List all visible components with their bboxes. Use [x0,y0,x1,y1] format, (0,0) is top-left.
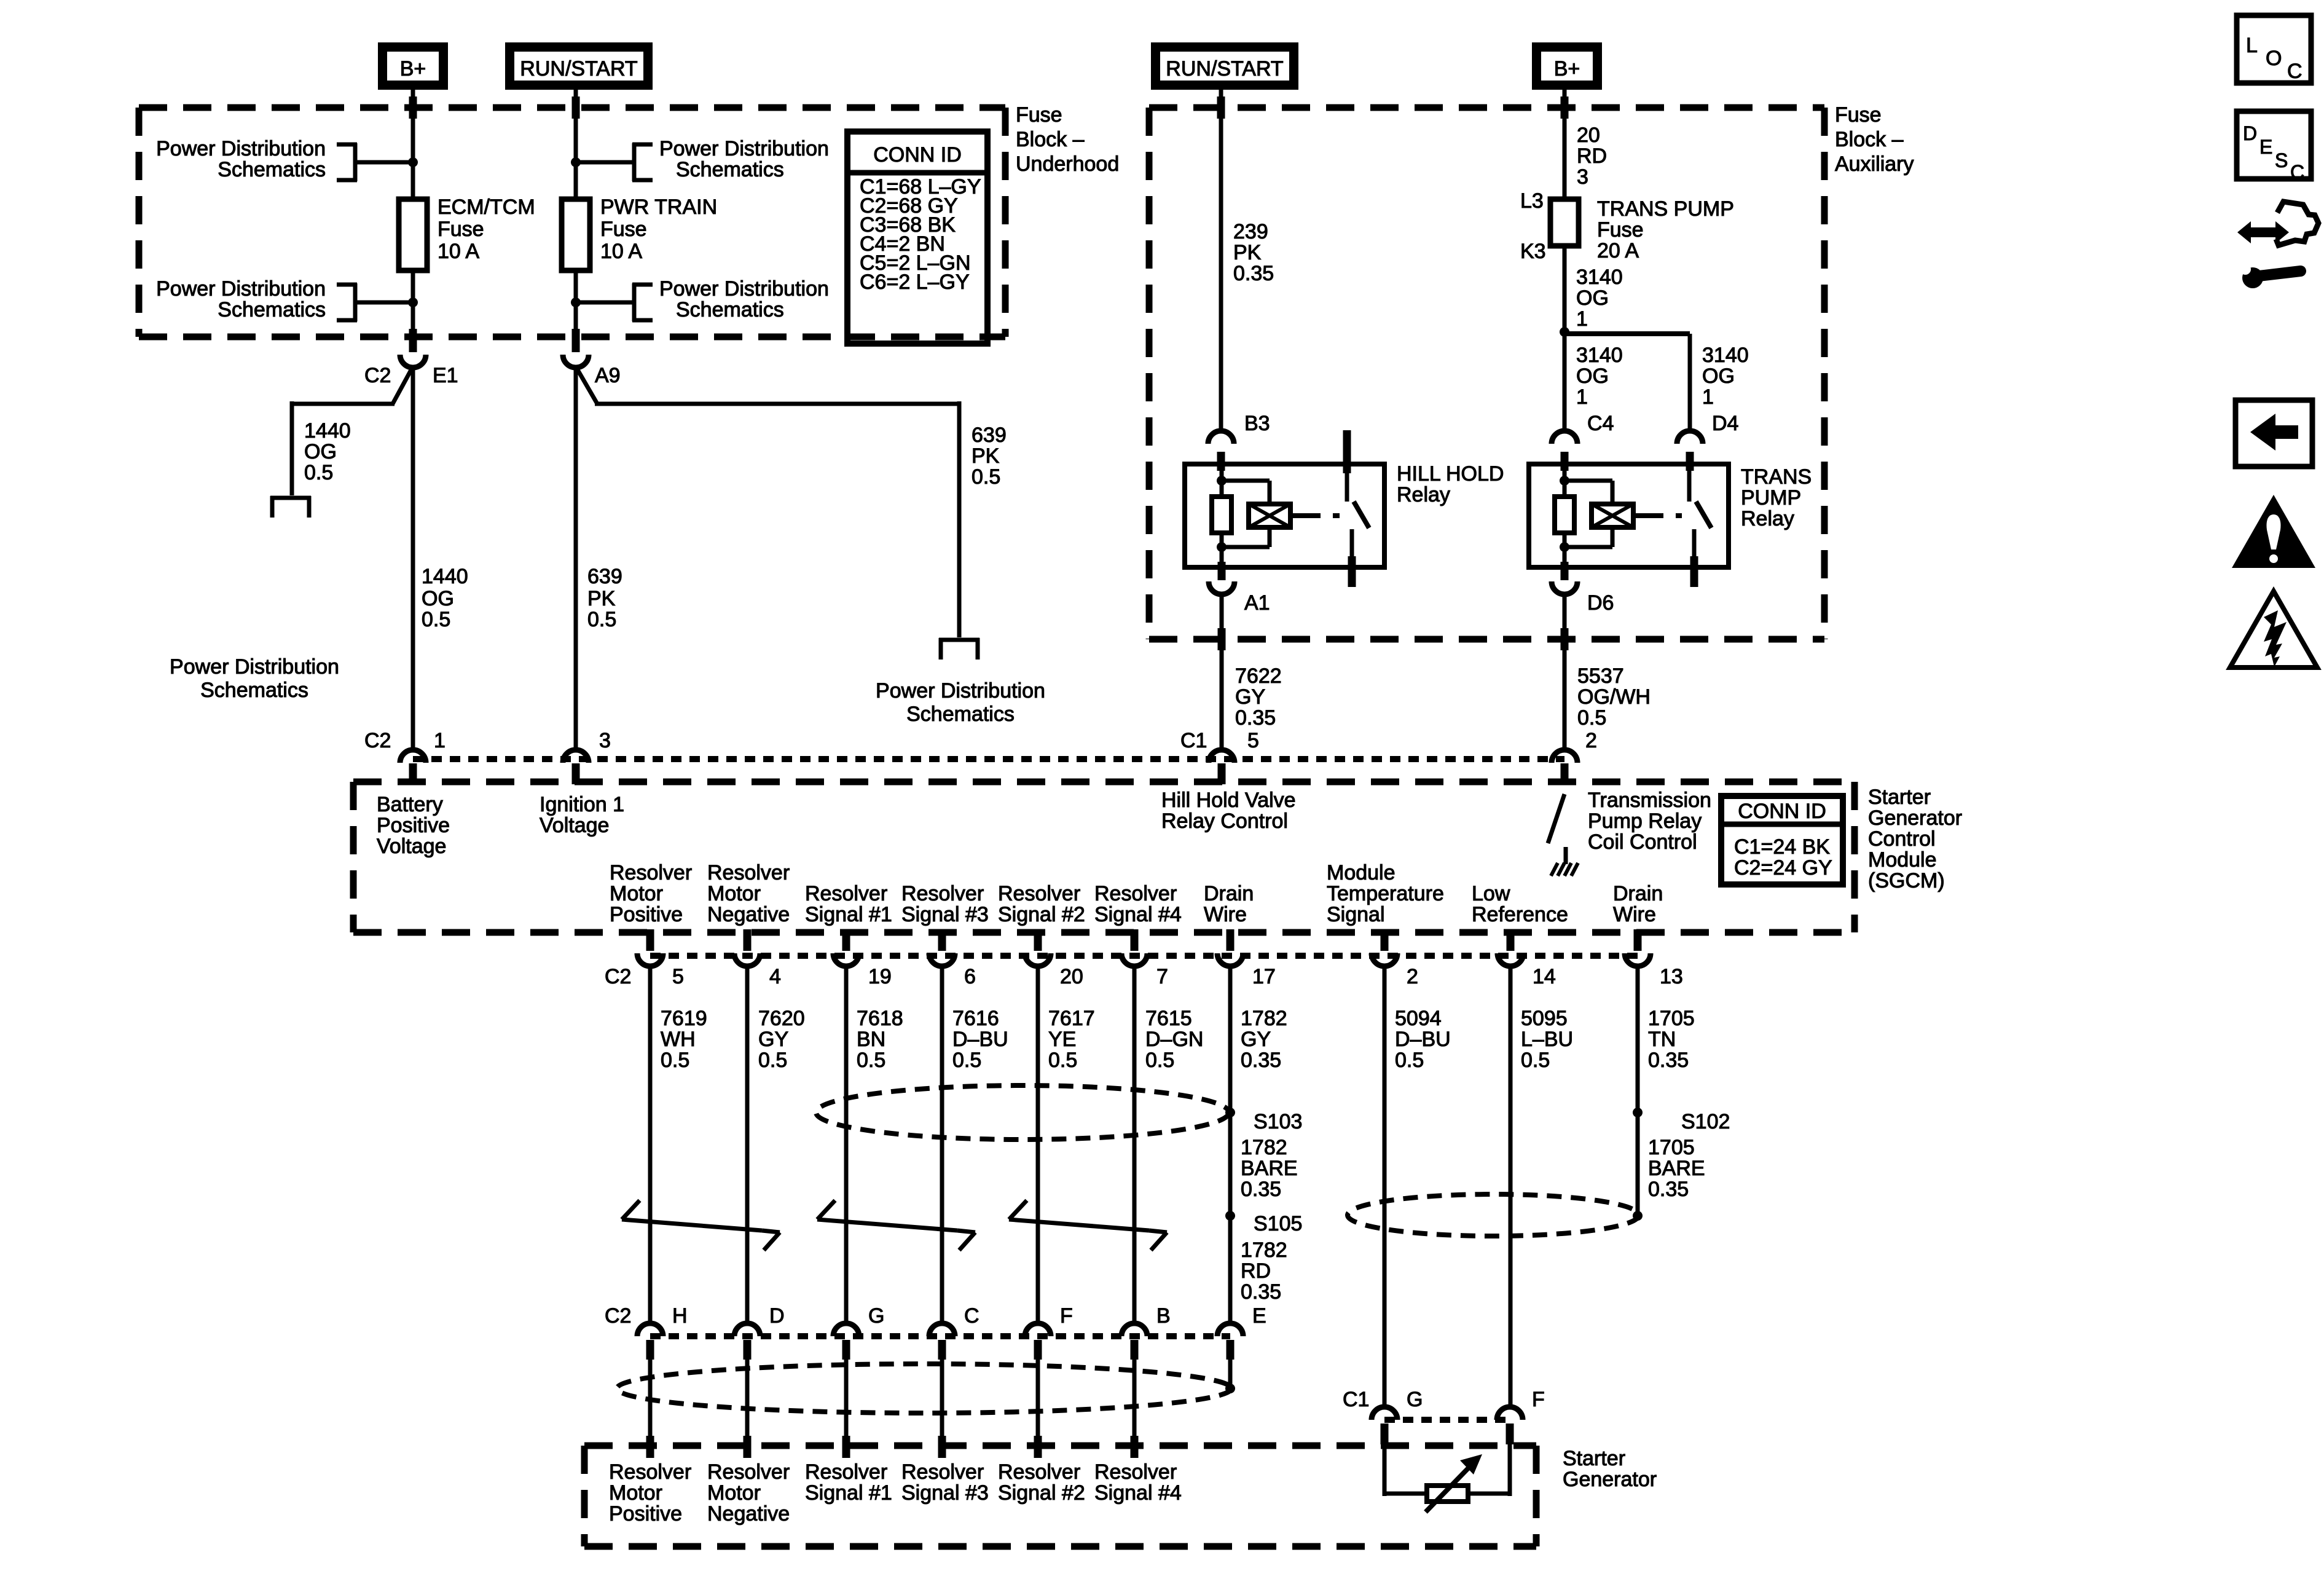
svg-text:C6=2 L–GY: C6=2 L–GY [860,270,970,294]
svg-text:Power Distribution: Power Distribution [876,679,1045,703]
svg-text:H: H [672,1304,688,1328]
svg-text:Module: Module [1868,848,1937,872]
svg-text:Control: Control [1868,827,1936,851]
svg-text:239: 239 [1233,220,1268,243]
svg-text:3140: 3140 [1702,344,1749,367]
svg-text:Resolver: Resolver [1094,882,1177,905]
svg-text:1440: 1440 [304,419,351,443]
svg-text:C: C [2290,161,2304,183]
svg-text:O: O [2266,47,2282,70]
svg-text:PUMP: PUMP [1741,486,1801,510]
svg-text:GY: GY [758,1028,788,1051]
svg-text:0.5: 0.5 [422,608,450,631]
svg-text:C2: C2 [605,1304,631,1328]
svg-text:Schematics: Schematics [218,158,326,181]
svg-text:C: C [964,1304,979,1328]
svg-text:7619: 7619 [661,1007,707,1030]
svg-text:5094: 5094 [1395,1007,1442,1030]
svg-text:OG: OG [422,587,454,610]
svg-text:BARE: BARE [1648,1157,1705,1180]
svg-text:Relay Control: Relay Control [1161,809,1288,833]
svg-text:4: 4 [769,965,781,988]
svg-text:0.5: 0.5 [1145,1049,1174,1072]
svg-text:Signal #4: Signal #4 [1094,903,1182,926]
svg-text:Power Distribution: Power Distribution [156,277,326,301]
svg-text:Power Distribution: Power Distribution [156,137,326,160]
svg-text:Signal #1: Signal #1 [805,903,892,926]
svg-text:5: 5 [672,965,684,988]
svg-text:G: G [1407,1388,1423,1411]
svg-text:Block –: Block – [1835,128,1904,151]
svg-text:17: 17 [1252,965,1276,988]
svg-text:Positive: Positive [609,1502,682,1526]
svg-text:C: C [2287,60,2302,83]
svg-text:(SGCM): (SGCM) [1868,869,1945,892]
svg-text:C1=24 BK: C1=24 BK [1734,835,1830,859]
svg-text:E: E [2259,136,2272,158]
svg-text:Signal #1: Signal #1 [805,1481,892,1505]
svg-text:D: D [2243,122,2257,144]
svg-text:Drain: Drain [1613,882,1663,905]
svg-text:0.5: 0.5 [661,1049,689,1072]
svg-text:0.35: 0.35 [1241,1178,1281,1201]
svg-text:Resolver: Resolver [610,861,692,884]
svg-text:S: S [2275,149,2288,171]
svg-text:Starter: Starter [1563,1447,1625,1470]
svg-text:A1: A1 [1244,591,1270,615]
svg-text:0.35: 0.35 [1233,262,1274,285]
svg-text:Signal #2: Signal #2 [998,903,1085,926]
svg-text:CONN ID: CONN ID [873,143,962,167]
svg-text:0.35: 0.35 [1648,1178,1689,1201]
svg-text:0.35: 0.35 [1648,1049,1689,1072]
svg-text:C4: C4 [1587,412,1614,435]
svg-text:7618: 7618 [857,1007,903,1030]
svg-text:Module: Module [1327,861,1396,884]
svg-text:Power Distribution: Power Distribution [170,655,339,679]
svg-text:19: 19 [868,965,892,988]
svg-text:Resolver: Resolver [805,1460,887,1484]
svg-text:1: 1 [434,729,446,752]
svg-text:20 A: 20 A [1597,239,1639,262]
svg-text:Temperature: Temperature [1327,882,1444,905]
svg-text:Positive: Positive [610,903,683,926]
svg-text:Negative: Negative [707,1502,790,1526]
svg-text:E1: E1 [433,364,458,387]
svg-text:Voltage: Voltage [540,814,609,837]
svg-text:OG: OG [304,440,337,463]
svg-text:L3: L3 [1520,189,1544,213]
svg-text:GY: GY [1235,685,1265,709]
svg-text:2: 2 [1585,729,1597,752]
svg-text:Resolver: Resolver [1094,1460,1177,1484]
svg-text:1: 1 [1576,307,1588,331]
svg-text:K3: K3 [1520,240,1546,263]
svg-text:RUN/START: RUN/START [1166,57,1283,81]
svg-text:Auxiliary: Auxiliary [1835,152,1914,176]
svg-text:Transmission: Transmission [1588,789,1711,812]
svg-text:0.5: 0.5 [1521,1049,1550,1072]
svg-text:Resolver: Resolver [998,882,1080,905]
svg-text:Signal #2: Signal #2 [998,1481,1085,1505]
svg-text:7620: 7620 [758,1007,805,1030]
svg-text:Wire: Wire [1204,903,1247,926]
svg-text:Resolver: Resolver [609,1460,691,1484]
svg-text:Resolver: Resolver [901,882,984,905]
svg-text:Ignition 1: Ignition 1 [540,793,624,816]
svg-text:639: 639 [972,423,1007,447]
svg-text:Battery: Battery [377,793,443,816]
svg-text:Motor: Motor [707,1481,761,1505]
svg-text:B3: B3 [1244,412,1270,435]
svg-text:1782: 1782 [1241,1136,1287,1159]
svg-text:Resolver: Resolver [707,1460,790,1484]
svg-text:C2: C2 [605,965,631,988]
svg-text:7617: 7617 [1048,1007,1095,1030]
svg-text:RUN/START: RUN/START [520,57,637,81]
svg-text:0.5: 0.5 [1577,706,1606,730]
svg-text:D–BU: D–BU [952,1028,1008,1051]
svg-text:Drain: Drain [1204,882,1254,905]
svg-text:Signal #4: Signal #4 [1094,1481,1182,1505]
svg-text:Schematics: Schematics [676,158,784,181]
svg-text:TN: TN [1648,1028,1676,1051]
svg-text:C2=24 GY: C2=24 GY [1734,856,1832,880]
svg-text:Schematics: Schematics [200,679,308,702]
svg-text:OG: OG [1576,364,1609,388]
svg-text:Positive: Positive [377,814,450,837]
svg-text:F: F [1060,1304,1073,1328]
svg-text:5095: 5095 [1521,1007,1568,1030]
svg-text:0.35: 0.35 [1235,706,1276,730]
svg-text:G: G [868,1304,884,1328]
svg-text:0.5: 0.5 [857,1049,885,1072]
svg-text:Hill Hold Valve: Hill Hold Valve [1161,789,1296,812]
svg-text:S102: S102 [1681,1110,1730,1133]
svg-text:F: F [1532,1388,1545,1411]
svg-text:639: 639 [587,565,622,588]
svg-text:L: L [2246,34,2258,57]
svg-text:C1: C1 [1180,729,1207,752]
svg-text:OG: OG [1702,364,1735,388]
svg-text:CONN ID: CONN ID [1738,800,1826,823]
svg-text:0.5: 0.5 [972,465,1000,489]
svg-text:1782: 1782 [1241,1238,1287,1262]
svg-text:Power Distribution: Power Distribution [659,277,829,301]
svg-text:6: 6 [964,965,976,988]
svg-text:Fuse: Fuse [1016,103,1062,127]
svg-text:D6: D6 [1587,591,1614,615]
svg-text:YE: YE [1048,1028,1076,1051]
svg-text:Resolver: Resolver [998,1460,1080,1484]
svg-text:Wire: Wire [1613,903,1656,926]
svg-text:Block –: Block – [1016,128,1085,151]
svg-text:A9: A9 [595,364,621,387]
svg-text:3140: 3140 [1576,344,1623,367]
svg-text:D–GN: D–GN [1145,1028,1203,1051]
svg-text:Underhood: Underhood [1016,152,1119,176]
svg-text:Generator: Generator [1868,806,1962,830]
svg-text:Motor: Motor [609,1481,662,1505]
svg-text:Fuse: Fuse [600,218,647,241]
svg-text:Negative: Negative [707,903,790,926]
svg-text:ECM/TCM: ECM/TCM [438,195,535,219]
svg-text:PK: PK [1233,241,1262,264]
svg-text:PK: PK [972,444,1000,468]
svg-text:0.5: 0.5 [952,1049,981,1072]
svg-text:S103: S103 [1254,1110,1302,1133]
svg-text:D–BU: D–BU [1395,1028,1451,1051]
svg-text:1: 1 [1702,385,1714,409]
svg-text:Voltage: Voltage [377,835,446,858]
svg-text:10 A: 10 A [600,240,642,263]
svg-text:20: 20 [1060,965,1083,988]
svg-text:Schematics: Schematics [906,703,1015,726]
svg-text:BN: BN [857,1028,885,1051]
svg-text:Reference: Reference [1472,903,1568,926]
svg-text:0.5: 0.5 [1395,1049,1424,1072]
svg-text:B: B [1156,1304,1171,1328]
svg-text:Signal: Signal [1327,903,1385,926]
svg-text:5537: 5537 [1577,664,1624,688]
svg-text:0.35: 0.35 [1241,1280,1281,1304]
svg-text:7615: 7615 [1145,1007,1192,1030]
svg-text:7616: 7616 [952,1007,999,1030]
svg-text:1440: 1440 [422,565,468,588]
svg-text:20: 20 [1577,124,1600,147]
svg-text:1782: 1782 [1241,1007,1287,1030]
svg-text:Generator: Generator [1563,1468,1657,1491]
svg-text:Motor: Motor [610,882,663,905]
svg-text:Resolver: Resolver [707,861,790,884]
svg-text:BARE: BARE [1241,1157,1298,1180]
svg-text:GY: GY [1241,1028,1271,1051]
svg-text:7: 7 [1156,965,1168,988]
svg-text:Relay: Relay [1741,507,1794,530]
svg-text:0.5: 0.5 [304,461,333,484]
svg-text:Schematics: Schematics [218,298,326,321]
svg-text:Schematics: Schematics [676,298,784,321]
svg-text:PWR TRAIN: PWR TRAIN [600,195,717,219]
svg-text:7622: 7622 [1235,664,1282,688]
svg-text:3140: 3140 [1576,266,1623,289]
svg-text:Relay: Relay [1397,483,1450,506]
svg-text:E: E [1252,1304,1266,1328]
svg-text:10 A: 10 A [438,240,479,263]
svg-text:C1: C1 [1343,1388,1369,1411]
svg-text:Pump Relay: Pump Relay [1588,809,1702,833]
svg-text:2: 2 [1407,965,1418,988]
svg-text:Signal #3: Signal #3 [901,1481,989,1505]
svg-text:D4: D4 [1712,412,1738,435]
svg-text:D: D [769,1304,785,1328]
svg-text:13: 13 [1660,965,1683,988]
svg-text:RD: RD [1241,1259,1271,1283]
svg-text:0.5: 0.5 [758,1049,787,1072]
svg-text:Fuse: Fuse [1835,103,1882,127]
svg-text:Resolver: Resolver [805,882,887,905]
svg-text:Starter: Starter [1868,786,1931,809]
svg-text:WH: WH [661,1028,696,1051]
svg-text:Resolver: Resolver [901,1460,984,1484]
svg-text:PK: PK [587,587,616,610]
svg-text:14: 14 [1533,965,1556,988]
svg-text:L–BU: L–BU [1521,1028,1573,1051]
svg-text:5: 5 [1247,729,1259,752]
svg-text:3: 3 [1577,165,1588,189]
svg-text:0.5: 0.5 [587,608,616,631]
svg-text:OG/WH: OG/WH [1577,685,1651,709]
svg-text:1705: 1705 [1648,1007,1695,1030]
svg-text:TRANS PUMP: TRANS PUMP [1597,197,1734,221]
svg-text:Fuse: Fuse [1597,218,1644,242]
svg-text:1705: 1705 [1648,1136,1695,1159]
svg-text:Fuse: Fuse [438,218,484,241]
svg-text:HILL HOLD: HILL HOLD [1397,462,1504,486]
svg-text:Coil Control: Coil Control [1588,830,1697,854]
svg-text:B+: B+ [1554,57,1580,81]
svg-text:C2: C2 [364,729,391,752]
svg-text:TRANS: TRANS [1741,465,1812,489]
svg-text:S105: S105 [1254,1212,1302,1235]
svg-text:1: 1 [1576,385,1588,409]
svg-text:0.35: 0.35 [1241,1049,1281,1072]
svg-text:B+: B+ [400,57,426,81]
svg-text:Motor: Motor [707,882,761,905]
svg-text:0.5: 0.5 [1048,1049,1077,1072]
svg-text:OG: OG [1576,286,1609,310]
svg-text:3: 3 [599,729,611,752]
svg-text:RD: RD [1577,144,1607,168]
svg-text:Signal #3: Signal #3 [901,903,989,926]
svg-text:Power Distribution: Power Distribution [659,137,829,160]
svg-text:Low: Low [1472,882,1510,905]
svg-text:C2: C2 [364,364,391,387]
